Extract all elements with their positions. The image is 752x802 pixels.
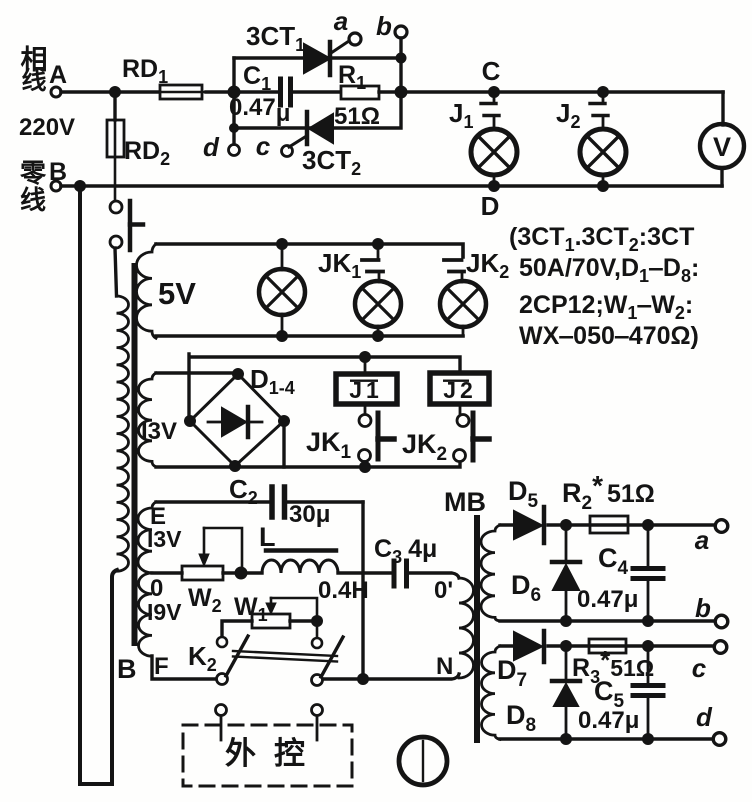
label 3CT1 bbox=[246, 21, 305, 55]
label 220V bbox=[19, 114, 75, 141]
label C2 bbox=[229, 474, 258, 508]
thyristor 3CT2 bbox=[289, 112, 333, 147]
label 51ohm bbox=[334, 103, 380, 130]
svg-text:d: d bbox=[696, 702, 713, 732]
relay coil J1 bbox=[336, 357, 397, 404]
MB secondary lower winding bbox=[482, 646, 500, 739]
rail a (D5 row) bbox=[500, 523, 714, 526]
node D7-D8 bbox=[560, 640, 572, 652]
node B branch bbox=[74, 180, 86, 192]
label 0.47u lower bbox=[578, 707, 639, 734]
svg-text:I9V: I9V bbox=[147, 599, 182, 625]
svg-text:N: N bbox=[436, 653, 453, 680]
diode D8 bbox=[552, 646, 580, 739]
svg-text:D: D bbox=[481, 191, 500, 221]
wire O tap to W2 bbox=[152, 571, 182, 574]
label D8 bbox=[506, 700, 536, 736]
capacitor C5 bbox=[633, 646, 663, 739]
svg-text:L: L bbox=[259, 522, 276, 552]
terminal B (neutral) bbox=[51, 181, 61, 191]
potentiometer W2 bbox=[182, 528, 262, 580]
terminal c out bbox=[714, 641, 727, 654]
lamp HL2 bbox=[355, 281, 401, 336]
node right mid bbox=[395, 86, 408, 99]
label O bbox=[150, 575, 163, 602]
label D7 bbox=[497, 655, 527, 691]
label K2 bbox=[188, 641, 217, 675]
svg-text:A: A bbox=[49, 61, 67, 89]
contact JK1 (relay row) bbox=[359, 404, 395, 467]
terminal d out bbox=[713, 733, 726, 746]
label a bbox=[334, 6, 348, 36]
node left bottom bbox=[229, 123, 239, 133]
inductor L bbox=[262, 551, 392, 574]
node junction at RD2 branch bbox=[109, 86, 121, 98]
svg-text:外控: 外控 bbox=[225, 736, 323, 771]
wire 13V to bridge top bbox=[156, 371, 238, 374]
svg-text:b: b bbox=[695, 593, 711, 623]
rail d bbox=[500, 737, 712, 740]
svg-text:c: c bbox=[692, 653, 707, 683]
svg-text:B: B bbox=[117, 654, 137, 684]
label L bbox=[259, 522, 276, 552]
svg-text:零: 零 bbox=[20, 158, 47, 188]
transformer lower winding O-F bbox=[139, 573, 153, 656]
neutral wire B line bbox=[61, 184, 722, 188]
relay coil J2 bbox=[430, 373, 489, 404]
label 0.4H bbox=[318, 577, 369, 604]
label MB bbox=[444, 487, 486, 517]
node W1 right bbox=[311, 615, 323, 627]
left return wire bbox=[80, 186, 117, 784]
label B (winding) bbox=[117, 654, 137, 684]
label d bbox=[203, 132, 220, 162]
label b out bbox=[695, 593, 711, 623]
svg-text:220V: 220V bbox=[19, 114, 75, 141]
terminal d bbox=[229, 128, 240, 156]
label RD1 bbox=[122, 55, 168, 87]
node C4 bottom bbox=[642, 615, 654, 627]
resistor R3 bbox=[589, 639, 626, 653]
svg-text:d: d bbox=[203, 132, 220, 162]
node D5-D6 bbox=[560, 519, 572, 531]
label D5 bbox=[508, 476, 539, 512]
label R3 * 51ohm bbox=[572, 645, 654, 687]
node at J2 bbox=[597, 86, 609, 98]
label C5 bbox=[594, 676, 625, 712]
label c out bbox=[692, 653, 707, 683]
contact J1 bbox=[481, 92, 499, 130]
transformer T core bbox=[132, 266, 138, 643]
rail b bbox=[500, 619, 714, 622]
svg-text:a: a bbox=[695, 525, 709, 555]
transformer 13V winding bbox=[139, 373, 157, 467]
label b bbox=[376, 11, 392, 41]
node above J1 bbox=[359, 351, 371, 363]
label W1 bbox=[234, 593, 268, 625]
label C bbox=[482, 56, 501, 86]
contact J2 bbox=[590, 92, 608, 130]
fuse RD1 bbox=[156, 85, 206, 99]
node D6 bottom bbox=[560, 615, 572, 627]
terminal b out bbox=[715, 615, 728, 628]
wire phase A to RD1 bbox=[61, 90, 158, 94]
annotation text bbox=[509, 223, 699, 350]
label JK2 (relay row) bbox=[402, 429, 447, 465]
label 5V bbox=[158, 276, 196, 311]
diode D6 bbox=[552, 525, 580, 621]
resistor R1 bbox=[341, 86, 401, 99]
label C1 bbox=[243, 62, 271, 94]
node lamp2 bottom bbox=[372, 330, 384, 342]
wire bridge right corner down bbox=[282, 421, 285, 467]
external control terminals bbox=[216, 705, 323, 741]
label 零线B bbox=[20, 158, 67, 215]
svg-text:I3V: I3V bbox=[147, 526, 182, 552]
MB primary winding bbox=[459, 578, 474, 678]
rail c (D7 row) bbox=[500, 644, 713, 647]
capacitor C4 bbox=[633, 525, 663, 621]
label JK1 (relay row) bbox=[306, 427, 352, 463]
node D bbox=[488, 180, 500, 192]
terminal a out bbox=[715, 520, 728, 533]
node JK1 top bbox=[372, 238, 384, 250]
label 外控 bbox=[225, 736, 323, 771]
node lamp1 bottom bbox=[276, 330, 288, 342]
capacitor C3 bbox=[394, 561, 459, 586]
wire switch to transformer primary bbox=[115, 248, 117, 296]
bridge rectifier D1-4 bbox=[190, 374, 284, 466]
label W2 bbox=[188, 584, 222, 616]
capacitor C1 bbox=[236, 79, 339, 105]
svg-text:MB: MB bbox=[444, 487, 486, 517]
node R2-C4 bbox=[642, 519, 654, 531]
label 30u bbox=[289, 501, 330, 528]
5V top rail bbox=[156, 244, 463, 257]
MB secondary upper winding bbox=[481, 525, 500, 621]
label J1 coil bbox=[349, 377, 383, 403]
lamp HL1 bbox=[259, 244, 305, 336]
label JK2 (5V row) bbox=[466, 248, 509, 282]
indicator lamp symbol bbox=[399, 737, 447, 785]
svg-text:2CP12;W1‒W2:: 2CP12;W1‒W2: bbox=[519, 291, 693, 323]
external control dashed box bbox=[183, 725, 352, 786]
wire C2 right down to bottom rail bbox=[361, 502, 364, 679]
svg-text:a: a bbox=[334, 6, 348, 36]
lamp J2 bbox=[580, 129, 626, 186]
svg-text:b: b bbox=[376, 11, 392, 41]
node R3-C5 bbox=[642, 640, 654, 652]
label 19V bbox=[147, 599, 182, 625]
label 0.47u bbox=[229, 94, 290, 127]
svg-text:c: c bbox=[256, 131, 271, 161]
bottom rail right (K2 to MB) bbox=[324, 674, 459, 679]
label d out bbox=[696, 702, 713, 732]
label RD2 bbox=[124, 137, 170, 169]
label J2 coil bbox=[443, 377, 477, 403]
lamp HL3 bbox=[440, 281, 486, 336]
svg-text:F: F bbox=[154, 653, 169, 680]
5V bottom rail bbox=[156, 334, 463, 338]
svg-text:C: C bbox=[482, 56, 501, 86]
label N bbox=[436, 653, 453, 680]
svg-text:0.47μ: 0.47μ bbox=[578, 707, 639, 734]
main wire network to V bbox=[401, 90, 723, 94]
diode D5 bbox=[514, 507, 544, 543]
label F bbox=[154, 653, 169, 680]
terminal c bbox=[282, 146, 293, 157]
contact JK2 (5V row) bbox=[444, 260, 464, 282]
label R2 * 51ohm bbox=[562, 470, 655, 514]
svg-text:WX‒050‒470Ω): WX‒050‒470Ω) bbox=[519, 322, 699, 350]
bottom rail left (F to K2) bbox=[152, 656, 215, 679]
svg-text:5V: 5V bbox=[158, 276, 196, 311]
terminal a (gate 3CT1) bbox=[349, 33, 361, 45]
switch K2 right pole bbox=[312, 621, 344, 686]
label E bbox=[150, 503, 166, 530]
node C5 bottom bbox=[642, 733, 654, 745]
label 13V lower bbox=[147, 526, 182, 552]
node top-right of network bbox=[396, 53, 407, 64]
label V bbox=[713, 132, 731, 162]
relay rail top bbox=[189, 354, 460, 421]
node left mid bbox=[228, 86, 241, 99]
svg-text:V: V bbox=[713, 132, 731, 162]
bridge corner nodes bbox=[184, 368, 290, 472]
node lamp1 top bbox=[276, 238, 288, 250]
node at J2 lamp bottom bbox=[597, 180, 609, 192]
label 相线A bbox=[21, 45, 68, 95]
thyristor network left vertical wire bbox=[234, 58, 236, 128]
label J2 bbox=[556, 98, 580, 132]
svg-text:(3CT1.3CT2:3CT: (3CT1.3CT2:3CT bbox=[509, 223, 694, 255]
K2 mechanical link bbox=[233, 651, 337, 662]
node C bbox=[488, 86, 500, 98]
svg-text:0: 0 bbox=[150, 575, 163, 602]
label 3CT2 bbox=[302, 145, 361, 179]
label D bbox=[481, 191, 500, 221]
label 13V bbox=[141, 418, 177, 445]
label D6 bbox=[511, 570, 541, 606]
wire b to top wire bbox=[399, 38, 402, 92]
wire E tap to C2 bbox=[156, 500, 269, 503]
svg-text:50A/70V,D1‒D8:: 50A/70V,D1‒D8: bbox=[519, 254, 699, 286]
label D1-4 bbox=[250, 364, 295, 398]
svg-text:0': 0' bbox=[434, 577, 453, 604]
svg-text:B: B bbox=[49, 158, 67, 186]
svg-text:30μ: 30μ bbox=[289, 501, 330, 528]
transformer lower winding E-O bbox=[138, 502, 156, 573]
wire RD1 to network bbox=[206, 90, 236, 93]
potentiometer W1 bbox=[222, 598, 317, 636]
transformer T primary winding bbox=[117, 296, 129, 571]
lamp J1 bbox=[471, 129, 517, 186]
svg-text:线: 线 bbox=[21, 66, 46, 95]
resistor R2 bbox=[590, 516, 628, 533]
node W2 wiper junction bbox=[235, 567, 248, 580]
label J1 bbox=[449, 98, 473, 132]
terminal b bbox=[395, 26, 407, 38]
transformer MB core bbox=[474, 518, 480, 740]
thyristor network top wire bbox=[234, 56, 401, 59]
thyristor network bottom wire bbox=[234, 92, 401, 128]
label R1 bbox=[338, 61, 366, 93]
switch K1 bbox=[110, 201, 143, 250]
fuse RD2 bbox=[107, 92, 124, 200]
capacitor C2 bbox=[272, 487, 363, 517]
svg-text:线: 线 bbox=[20, 185, 46, 215]
node JK1 bottom rail bbox=[359, 461, 371, 473]
transformer 5V winding bbox=[137, 244, 157, 338]
label C4 bbox=[598, 543, 629, 579]
contact JK1 (5V row) bbox=[362, 245, 383, 282]
node C2 drop on bottom rail bbox=[357, 673, 369, 685]
wire 13V bottom rail bbox=[156, 461, 460, 467]
svg-text:0.4H: 0.4H bbox=[318, 577, 369, 604]
label C3 4u bbox=[374, 535, 437, 567]
label a out bbox=[695, 525, 709, 555]
label JK1 (5V row) bbox=[318, 248, 361, 282]
switch K2 left pole bbox=[217, 636, 249, 685]
contact JK2 (relay row) bbox=[454, 404, 490, 462]
diode D7 bbox=[514, 631, 544, 662]
thyristor 3CT1 bbox=[304, 41, 349, 75]
label O' bbox=[434, 577, 453, 604]
label 0.47u upper bbox=[577, 586, 638, 613]
svg-text:I3V: I3V bbox=[141, 418, 177, 445]
voltmeter V bbox=[700, 92, 744, 186]
node D8 bottom bbox=[560, 733, 572, 745]
svg-text:0.47μ: 0.47μ bbox=[577, 586, 638, 613]
svg-text:51Ω: 51Ω bbox=[334, 103, 380, 130]
terminal A (phase) bbox=[51, 87, 61, 97]
label c bbox=[256, 131, 271, 161]
